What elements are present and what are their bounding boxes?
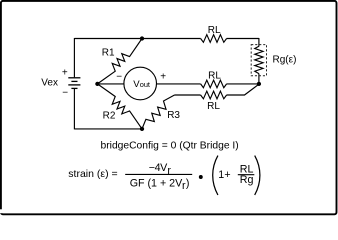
wire: left rail above battery <box>73 38 75 77</box>
resistor R1 <box>97 39 142 84</box>
wire: gauge to right node <box>258 74 260 85</box>
svg-text:RL: RL <box>208 25 221 36</box>
svg-text:+: + <box>224 169 230 181</box>
resistor RL (bottom) <box>201 91 227 99</box>
svg-text:RL: RL <box>208 71 221 82</box>
wire: left rail below battery <box>73 88 75 129</box>
node: bridge bottom junction <box>140 127 144 131</box>
svg-text:+: + <box>160 72 166 83</box>
svg-text:Rg(ε): Rg(ε) <box>273 55 297 66</box>
svg-text:Vex: Vex <box>41 78 58 89</box>
resistor R3 <box>142 95 175 129</box>
formula big open paren <box>213 156 218 195</box>
svg-text:bridgeConfig = 0 (Qtr Bridge I: bridgeConfig = 0 (Qtr Bridge I) <box>101 141 239 152</box>
wire: top rail right segment <box>227 38 259 40</box>
wire: lower RL right segment + rise to right node <box>227 84 259 95</box>
svg-text:Rg: Rg <box>240 174 254 186</box>
svg-text:R1: R1 <box>102 48 115 59</box>
svg-text:−: − <box>116 72 122 83</box>
wire: middle RL to right node <box>227 83 259 85</box>
node: bridge left junction <box>95 82 99 86</box>
wire: Vout to middle RL <box>156 83 200 85</box>
formula RL/Rg bar <box>238 174 255 176</box>
svg-text:R2: R2 <box>103 110 116 121</box>
svg-text:RL: RL <box>207 101 220 112</box>
wire: top rail left segment <box>74 38 200 40</box>
resistor R2 <box>97 84 142 129</box>
op-amp/galvanometer Vout circle <box>124 67 157 100</box>
formula fraction bar <box>125 173 192 175</box>
wire: left node to Vout <box>97 83 124 85</box>
dashed gauge box <box>251 45 266 76</box>
svg-text:−: − <box>62 87 68 98</box>
svg-text:Vout: Vout <box>133 79 150 90</box>
svg-text:GF (1 + 2V: GF (1 + 2V <box>130 177 183 189</box>
svg-text:1: 1 <box>218 169 224 181</box>
svg-text:R3: R3 <box>167 110 180 121</box>
node: gauge right junction <box>257 82 261 86</box>
node: bridge top junction <box>140 36 144 40</box>
wire: lower RL left segment <box>175 94 201 96</box>
formula big close paren <box>255 156 260 195</box>
resistor RL (top) <box>201 35 227 43</box>
wire: right drop into gauge box <box>258 38 260 47</box>
resistor RL (middle) <box>201 80 227 88</box>
svg-text:+: + <box>62 67 68 78</box>
resistor Rg strain gauge <box>255 46 263 73</box>
wire: bottom rail <box>74 128 142 130</box>
battery Vex plates <box>68 78 80 89</box>
svg-text:r: r <box>167 165 171 177</box>
svg-text:strain (ε) =: strain (ε) = <box>68 168 117 180</box>
svg-text:): ) <box>186 177 190 189</box>
formula bullet operator <box>199 175 203 179</box>
